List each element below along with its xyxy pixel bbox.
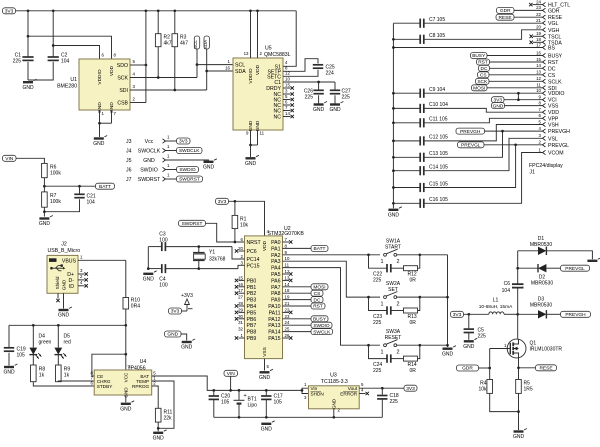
svg-text:10-68uH, 15mA: 10-68uH, 15mA (479, 304, 513, 310)
node rail-R3 (173, 9, 176, 12)
U4 pin name CE (91, 371, 104, 379)
svg-text:PB0: PB0 (247, 278, 257, 284)
capacitor C3 (148, 232, 232, 252)
svg-text:QMC5883L: QMC5883L (264, 52, 291, 58)
U2 pin PB2 (235, 288, 257, 297)
svg-text:PA7: PA7 (271, 285, 281, 291)
svg-text:PA9: PA9 (271, 298, 281, 304)
wire C19 gnd (8, 353, 10, 366)
label U4 TP4056 (127, 359, 146, 371)
svg-text:PB5: PB5 (247, 310, 257, 316)
svg-text:PREVGL: PREVGL (461, 143, 481, 149)
wire to U1 VDDIO (53, 46, 99, 60)
wire C2 bottom (28, 62, 53, 80)
svg-text:C11 105: C11 105 (429, 117, 448, 123)
svg-text:DC: DC (548, 66, 556, 72)
svg-text:PB9: PB9 (247, 336, 257, 342)
U2 pin PA14 (268, 327, 332, 336)
capacitor C14 (393, 165, 448, 176)
svg-text:104: 104 (502, 288, 511, 294)
wire U3 shdn jog (302, 390, 309, 400)
label U2 STM32G070KB (268, 226, 305, 237)
svg-text:U1: U1 (70, 77, 77, 83)
svg-text:GND: GND (93, 141, 105, 147)
svg-text:VGL: VGL (548, 21, 558, 27)
svg-text:C16 105: C16 105 (429, 197, 448, 203)
resistor R4 (478, 380, 492, 394)
node C2-vddio-tap (52, 44, 55, 47)
node rail-R2 (157, 9, 160, 12)
node caprail C10 (392, 107, 395, 110)
node R4-R5 (517, 410, 520, 413)
svg-text:PA2: PA2 (271, 253, 281, 259)
svg-text:PA3: PA3 (271, 259, 281, 265)
U2 pin PB4 (235, 301, 257, 310)
node swrail-SW3 (446, 344, 449, 347)
ground U1 (93, 136, 107, 148)
capacitor C9 (393, 87, 445, 98)
svg-text:32k768: 32k768 (209, 256, 226, 262)
svg-text:VBUS: VBUS (62, 258, 77, 264)
svg-text:GND: GND (3, 370, 15, 376)
U5 NC stub pin 6 (283, 100, 294, 107)
svg-text:12: 12 (536, 76, 541, 81)
svg-text:104: 104 (87, 200, 96, 206)
node rail-C20 (212, 389, 215, 392)
svg-text:VDDIO: VDDIO (97, 69, 103, 84)
svg-text:32: 32 (238, 327, 243, 332)
svg-text:BATT: BATT (314, 246, 326, 252)
U2 pin PC14 (241, 254, 260, 263)
svg-text:green: green (39, 339, 52, 345)
svg-text:PA1: PA1 (271, 246, 281, 252)
U2 pin PC6 (235, 246, 257, 255)
svg-text:MOSI: MOSI (313, 285, 325, 291)
svg-text:12: 12 (285, 269, 290, 274)
capacitor C6 (502, 281, 524, 294)
ground C27 (329, 102, 343, 114)
svg-text:GND: GND (463, 344, 475, 350)
svg-text:12: 12 (285, 71, 290, 76)
capacitor C20 (209, 390, 231, 417)
svg-text:BATT: BATT (99, 184, 111, 190)
U3 gnd pin (333, 409, 335, 418)
node rail-D5 (57, 324, 60, 327)
svg-text:SCL: SCL (193, 40, 198, 49)
connector J1 pin 24 HLT_CTL (529, 0, 570, 9)
wire C13 to PREVGH (424, 131, 503, 157)
U2 pin PA1 (271, 243, 328, 252)
svg-text:4k7: 4k7 (164, 41, 172, 47)
node caprail C13 (392, 156, 395, 159)
U2 pin name VDD (262, 240, 268, 251)
U4 pin name BAT (140, 371, 156, 379)
svg-text:+: + (244, 393, 247, 399)
svg-text:100k: 100k (50, 199, 61, 205)
svg-text:PA13: PA13 (268, 323, 280, 329)
svg-text:104: 104 (61, 59, 70, 65)
svg-text:16: 16 (238, 282, 243, 287)
U1 pin name SCK (117, 76, 128, 82)
U5 pin name DRDY y88 (266, 86, 281, 92)
svg-text:VDDIO: VDDIO (248, 68, 254, 83)
J2 pin D+ (67, 268, 88, 278)
svg-text:MOSI: MOSI (473, 86, 485, 92)
power label 3V3 (top left) (3, 8, 16, 15)
svg-text:PA4: PA4 (271, 266, 281, 272)
svg-text:0R: 0R (410, 278, 417, 284)
node Vout-C18 (381, 387, 384, 390)
resistor R2 (155, 11, 171, 78)
net label PREVGL (boost) (561, 265, 590, 272)
resistor R11 (155, 408, 172, 422)
U5 pin name S1 y66.3 (275, 64, 281, 70)
node BATT divider (43, 185, 46, 188)
diode D5 red (54, 325, 71, 358)
svg-text:CS: CS (480, 73, 487, 79)
capacitor C12 (393, 135, 448, 146)
svg-text:14: 14 (536, 63, 541, 68)
wire Vout (359, 382, 404, 388)
svg-text:PA6: PA6 (271, 278, 281, 284)
capacitor C2 (48, 53, 70, 65)
svg-text:PA14: PA14 (268, 330, 280, 336)
svg-text:225: 225 (478, 334, 487, 340)
U2 pin PB3 (238, 295, 256, 304)
svg-text:J5: J5 (126, 158, 132, 164)
wire C5 gnd (468, 333, 470, 340)
wire R5 bottom (518, 393, 520, 430)
node CE tap (124, 353, 127, 356)
svg-text:Vin: Vin (311, 386, 318, 391)
resistor R8 (31, 355, 46, 382)
U5 pin name NC y94 (274, 92, 282, 98)
switch SW2A SET (367, 281, 447, 326)
svg-text:SWDIO: SWDIO (313, 323, 330, 329)
svg-text:PB3: PB3 (247, 298, 257, 304)
wire to U1 VDD (28, 36, 112, 59)
svg-text:SHDN: SHDN (311, 392, 324, 397)
U1 pin name SDI (119, 88, 128, 94)
svg-text:GND: GND (245, 161, 257, 167)
capacitor C7 (393, 17, 445, 28)
svg-text:4k7: 4k7 (180, 41, 188, 47)
wire BAT to battery rail (152, 376, 214, 390)
svg-text:GDR: GDR (462, 366, 473, 372)
wire U5 S1 to 3V3 rail (283, 11, 296, 67)
connector J1 pin 5 VSH (539, 119, 559, 128)
U2 pin PA9 (271, 295, 323, 304)
svg-text:GND: GND (332, 398, 337, 409)
node Q1 source-RESE (517, 366, 520, 369)
svg-text:10k: 10k (478, 387, 487, 393)
capacitor C25 (313, 65, 335, 77)
svg-text:USB_B_Micro: USB_B_Micro (48, 248, 81, 254)
capacitor C10 (393, 102, 448, 113)
svg-text:1k: 1k (64, 373, 70, 379)
ground cap rail (388, 207, 402, 219)
capacitor C27 (330, 89, 351, 101)
svg-text:VDD: VDD (255, 64, 261, 75)
svg-text:PB1: PB1 (247, 285, 257, 291)
svg-text:PREVGH: PREVGH (460, 129, 481, 135)
ground J2 (58, 307, 72, 319)
svg-text:PREVGL: PREVGL (548, 143, 569, 149)
node C21 tap (78, 185, 81, 188)
svg-text:VCC: VCC (123, 372, 128, 382)
node R7-C21 (43, 210, 46, 213)
U5 NC stub pin 3 (283, 89, 294, 96)
diode D1 MBR0530 (518, 236, 593, 259)
node rail-R10 (124, 324, 127, 327)
node C5 tap (467, 313, 470, 316)
svg-text:1: 1 (381, 259, 384, 265)
node U3 vin node (301, 389, 304, 392)
U2 pin PA12 (268, 314, 328, 323)
node caprail C12 (392, 140, 395, 143)
svg-text:GND: GND (39, 221, 51, 227)
U2 pin PA4 (271, 263, 290, 272)
svg-text:J7: J7 (126, 177, 132, 183)
svg-text:SWDIO: SWDIO (179, 167, 196, 173)
ic U4 TP4056 body (94, 370, 152, 395)
net label BATT (96, 183, 115, 190)
svg-text:22: 22 (285, 307, 290, 312)
svg-text:Y1: Y1 (209, 250, 215, 256)
svg-text:VSL: VSL (548, 136, 558, 142)
wire bottom rail (214, 416, 382, 418)
connector J1 pin 17 BS (393, 42, 555, 51)
wire C26 to gnd (318, 95, 320, 103)
wire R7 bottom (43, 207, 45, 216)
U3 pin name SHDN (311, 392, 324, 397)
wire GND flag (181, 334, 187, 341)
svg-text:PC15: PC15 (247, 263, 260, 269)
wire gnd rail (caps) (392, 23, 394, 208)
capacitor C13 (393, 151, 448, 162)
svg-text:16: 16 (225, 66, 230, 71)
U2 pin PA3 (271, 256, 290, 265)
wire VCC column (125, 325, 127, 370)
U4 pin name VCC (123, 365, 131, 383)
wire SCL to U5 (197, 59, 233, 65)
U5 pin name C1 y82 (274, 80, 281, 86)
node caprail C16 (392, 202, 395, 205)
power flag +3V3 (181, 293, 193, 311)
svg-text:SWDRST: SWDRST (138, 177, 161, 183)
connector J1 pin 4 PREVGH (456, 126, 570, 135)
svg-text:3V3: 3V3 (5, 9, 14, 15)
diode D4 green (29, 325, 51, 358)
svg-text:17: 17 (536, 42, 541, 47)
connector J1 pin 22 RESE (496, 12, 563, 21)
wire to BATT label (44, 185, 95, 187)
label FPC24/display J1 (529, 163, 563, 176)
node rail-C17 (265, 389, 268, 392)
connector J1 pin 16 BUSY (471, 50, 563, 59)
node R2-SCK (157, 76, 160, 79)
svg-text:RST: RST (313, 304, 323, 310)
capacitor C16 (393, 197, 448, 208)
svg-text:SDA: SDA (235, 69, 246, 75)
ground U5 (245, 155, 259, 167)
svg-text:+3V3: +3V3 (181, 293, 193, 299)
J2 pin D- (69, 274, 88, 284)
node boost-L1 (516, 313, 519, 316)
svg-text:1R5: 1R5 (524, 387, 533, 393)
U2 pin PB9 (235, 333, 257, 342)
label J2 USB_B_Micro (48, 242, 81, 254)
J2 vbus fill mark (49, 258, 57, 262)
label U1 BME280 (57, 77, 77, 90)
connector J1 pin 13 CS (478, 70, 556, 79)
svg-text:SWDCLK: SWDCLK (179, 148, 200, 154)
wire C21 bottom (44, 199, 79, 212)
node caprail C9 (392, 92, 395, 95)
wire C1 bottom (27, 62, 29, 80)
wire PA3 to SW2 (283, 261, 381, 297)
svg-text:14: 14 (285, 111, 290, 116)
connector J1 pin 14 DC (479, 63, 556, 72)
node C1-C26 (317, 81, 320, 84)
wire VIN drop (230, 376, 232, 390)
U3 pin name ERROR (340, 392, 358, 397)
net label SWDRST (U2) (179, 220, 206, 227)
U5 pin name NC y99.5 (274, 98, 282, 104)
svg-text:10: 10 (536, 88, 541, 93)
ground switches (442, 346, 456, 358)
svg-text:21: 21 (285, 301, 290, 306)
U5 pin name SDA (235, 69, 246, 75)
node swrail-SW2 (446, 296, 449, 299)
node caprail C15 (392, 186, 395, 189)
wire gate column (489, 349, 491, 380)
svg-text:C7 105: C7 105 (429, 17, 445, 23)
U2 pin PB8 (238, 327, 256, 336)
svg-text:105: 105 (17, 353, 26, 359)
svg-text:SCK: SCK (117, 76, 128, 82)
node rail-VIN (229, 389, 232, 392)
node gate-R4 (488, 367, 491, 370)
svg-text:3V3: 3V3 (179, 139, 188, 145)
wire VIN rail (charger) (9, 324, 126, 326)
svg-text:GDR: GDR (500, 8, 511, 14)
wire 3V3 top rail (16, 10, 297, 12)
U5 DRDY stub (283, 82, 294, 89)
node rail-D4 (32, 324, 35, 327)
connector J1 pin 3 VSL (539, 133, 558, 142)
ground D1 (587, 258, 600, 261)
power label 3V3 (U2) (216, 198, 229, 205)
svg-text:C9 104: C9 104 (429, 87, 445, 93)
svg-text:27: 27 (238, 295, 243, 300)
resistor R7 (42, 186, 62, 207)
node brail-C17 (265, 416, 268, 419)
resistor R9 (56, 355, 71, 382)
U4 gnd pin (125, 395, 127, 402)
svg-text:1: 1 (381, 349, 384, 355)
wire SWDRST to NRST (206, 223, 245, 242)
U4 pin name GND (123, 387, 128, 398)
wire C11 to VPP (424, 118, 543, 123)
svg-text:22: 22 (536, 12, 541, 17)
crystal Y1 (193, 245, 226, 270)
svg-text:BUSY: BUSY (313, 317, 327, 323)
svg-text:RST: RST (548, 60, 559, 66)
svg-text:GND: GND (203, 164, 215, 170)
svg-text:17: 17 (238, 288, 243, 293)
svg-text:SCLK: SCLK (548, 79, 562, 85)
svg-text:PREVGL: PREVGL (565, 266, 585, 272)
svg-text:C8 105: C8 105 (429, 33, 445, 39)
J2 pin name VBUS (62, 258, 77, 264)
svg-text:Vout: Vout (348, 386, 358, 391)
node R11-TEMP (157, 427, 160, 430)
svg-text:13: 13 (536, 70, 541, 75)
resistor R1 (232, 201, 248, 242)
U1 pin name CSB (117, 101, 128, 107)
svg-text:SDO: SDO (117, 63, 128, 69)
U2 pin PB0 (235, 275, 257, 284)
transistor Q1 IRLML0030TR (490, 339, 563, 358)
node caprail C8 (392, 38, 395, 41)
svg-text:3V3: 3V3 (218, 199, 227, 205)
wire xtal row1 to PC14 (232, 247, 245, 259)
connector J1 pin 11 SDI (472, 83, 557, 92)
connector J1 pin 8 VSS (492, 100, 559, 109)
svg-text:PA0: PA0 (271, 240, 281, 246)
node C1-vdd-tap (27, 35, 30, 38)
wire C1 column (27, 11, 29, 57)
svg-text:19: 19 (285, 295, 290, 300)
svg-text:IRLML0030TR: IRLML0030TR (530, 347, 563, 353)
ic U2 STM32G070KB body (245, 236, 283, 359)
net label GDR (Q1) (457, 365, 479, 372)
power label 3V3 (flag) (169, 308, 182, 315)
U2 pin PA2 (271, 250, 287, 259)
header pin J7 SWDRST (126, 173, 203, 184)
svg-text:2: 2 (397, 301, 400, 307)
svg-text:C13 105: C13 105 (429, 151, 448, 157)
wire C7 to VGL (424, 22, 543, 24)
node R1 top (234, 200, 237, 203)
net label SCL vertical (193, 36, 200, 78)
svg-text:PA10: PA10 (268, 304, 280, 310)
node rail-U5vddio (249, 9, 252, 12)
wire Q1 source (518, 358, 520, 380)
wire C14 to VSL (424, 138, 543, 170)
svg-text:U3: U3 (330, 373, 337, 379)
node caprail C14 (392, 169, 395, 172)
U1 pin name VDD (109, 65, 115, 76)
U2 pin PA10 (268, 301, 325, 310)
wire 3V3 tie column (145, 11, 147, 103)
wire VDDIO-VCI link (517, 93, 519, 100)
wire CE (92, 354, 126, 376)
wire U1 SCK row (130, 72, 197, 78)
wire 3V3 to L1 (464, 313, 489, 315)
power label VIN (battery rail) (224, 370, 238, 377)
capacitor C11 (393, 117, 447, 128)
node NRST junction (234, 241, 237, 244)
resistor R10 (123, 260, 140, 325)
capacitor C15 (393, 181, 448, 192)
wire U5 VDDIO riser (244, 11, 251, 58)
wire C10 to VDD (424, 108, 543, 112)
svg-text:GND: GND (153, 435, 165, 441)
capacitor C1 (13, 53, 34, 65)
svg-text:VDD: VDD (262, 240, 268, 251)
